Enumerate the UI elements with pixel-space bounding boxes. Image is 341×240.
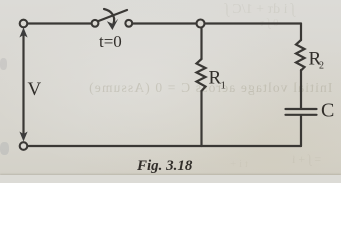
svg-text:t=0: t=0: [99, 32, 122, 51]
svg-text:1: 1: [221, 80, 227, 92]
svg-text:V: V: [28, 79, 42, 100]
svg-text:2: 2: [319, 61, 324, 72]
svg-text:Fig. 3.18: Fig. 3.18: [136, 158, 193, 174]
svg-text:C: C: [321, 100, 334, 122]
